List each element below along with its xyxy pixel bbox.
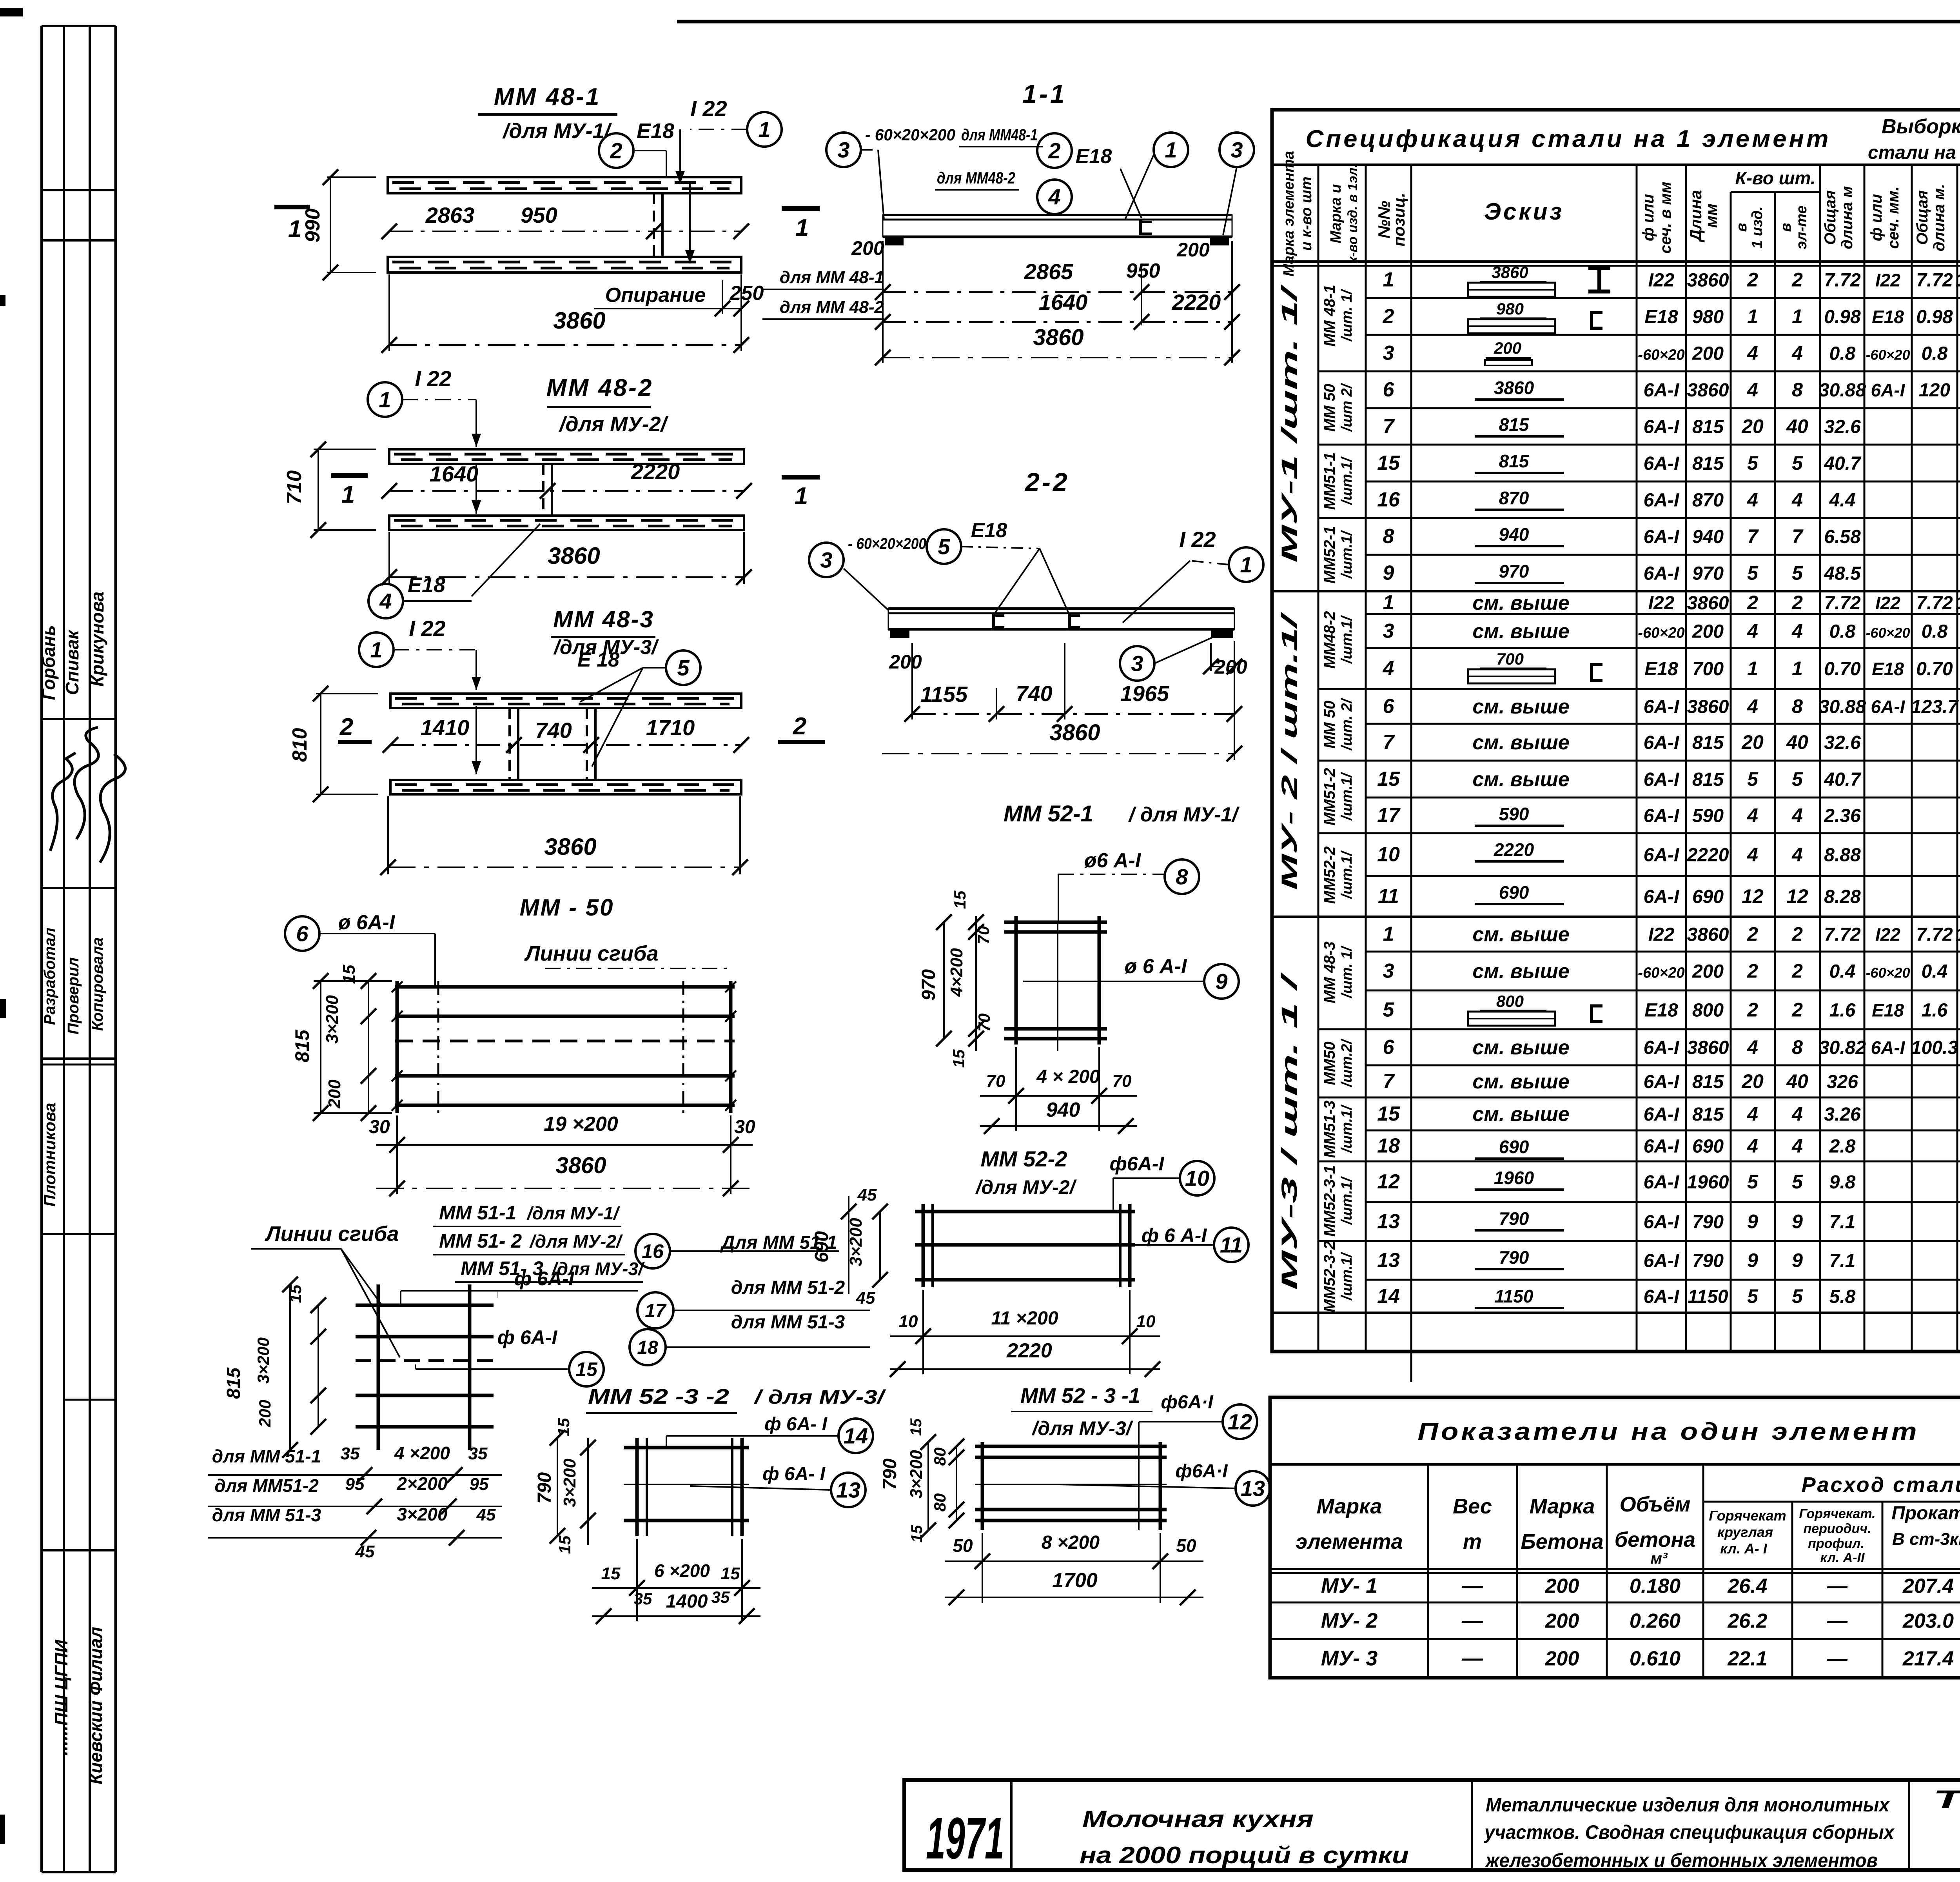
svg-text:4: 4	[1791, 1135, 1803, 1157]
svg-text:217.4: 217.4	[1902, 1648, 1954, 1670]
section 2-2 extension lines	[911, 643, 913, 719]
svg-text:Эскиз: Эскиз	[1484, 198, 1564, 225]
svg-text:3860: 3860	[1687, 593, 1729, 614]
svg-text:18: 18	[637, 1337, 658, 1358]
svg-text:3860: 3860	[1033, 325, 1083, 350]
svg-text:ф 6А-I: ф 6А-I	[497, 1326, 558, 1348]
svg-text:1960: 1960	[1494, 1168, 1534, 1188]
svg-text:ММ52-1: ММ52-1	[1321, 526, 1338, 584]
svg-text:ф6А·I: ф6А·I	[1161, 1392, 1214, 1413]
svg-text:4: 4	[379, 589, 392, 614]
pokazateli table frame	[1270, 1397, 1960, 1678]
svg-text:Молочная кухня: Молочная кухня	[1082, 1806, 1314, 1832]
svg-text:/шт.1/: /шт.1/	[1339, 530, 1355, 579]
title block frame	[904, 1780, 1960, 1870]
svg-text:ф6А·I: ф6А·I	[1175, 1461, 1228, 1482]
svg-text:ММ48-2: ММ48-2	[1321, 611, 1338, 669]
svg-text:980: 980	[1692, 307, 1724, 327]
section 1-1 C-channel mark	[1139, 220, 1142, 235]
svg-text:5: 5	[1747, 768, 1759, 790]
svg-text:ф или: ф или	[1868, 194, 1885, 241]
section 2-2 left end angle	[890, 630, 909, 638]
svg-text:5: 5	[1747, 1171, 1759, 1193]
svg-text:сеч. мм.: сеч. мм.	[1885, 186, 1902, 249]
svg-text:14: 14	[1377, 1285, 1400, 1308]
svg-text:1: 1	[795, 214, 809, 242]
svg-text:Е18: Е18	[408, 573, 445, 597]
svg-text:35: 35	[341, 1444, 360, 1463]
svg-text:МУ-3 / шт. 1 /: МУ-3 / шт. 1 /	[1277, 972, 1301, 1290]
svg-text:—: —	[1461, 1574, 1483, 1598]
svg-text:2: 2	[1791, 592, 1803, 614]
svg-text:3: 3	[1383, 960, 1394, 983]
svg-text:1: 1	[1240, 552, 1252, 577]
svg-text:80: 80	[931, 1493, 949, 1512]
svg-text:I22: I22	[1875, 925, 1900, 945]
svg-text:4×200: 4×200	[947, 948, 966, 997]
svg-text:815: 815	[1692, 453, 1724, 474]
svg-text:15: 15	[908, 1525, 926, 1542]
pokazateli header grid	[1427, 1464, 1429, 1678]
svg-text:5.8: 5.8	[1829, 1286, 1856, 1307]
svg-text:0.8: 0.8	[1829, 621, 1856, 642]
svg-text:мм: мм	[1702, 203, 1720, 228]
svg-text:70: 70	[1112, 1072, 1132, 1091]
svg-text:207.4: 207.4	[1902, 1575, 1954, 1598]
svg-text:123.7: 123.7	[1911, 697, 1959, 718]
svg-text:32.6: 32.6	[1824, 732, 1861, 753]
svg-text:для ММ 51-2: для ММ 51-2	[731, 1277, 845, 1298]
svg-text:10: 10	[1377, 843, 1400, 866]
svg-text:0.180: 0.180	[1630, 1575, 1681, 1598]
svg-text:ф 6А- I: ф 6А- I	[764, 1414, 828, 1435]
beam MM48-2 middle rib	[542, 464, 544, 516]
svg-text:80: 80	[931, 1448, 949, 1466]
svg-text:ММ 52 - 3 -1: ММ 52 - 3 -1	[1020, 1384, 1140, 1408]
svg-text:Вес: Вес	[1453, 1495, 1492, 1518]
svg-text:на 2000 порций в сутки: на 2000 порций в сутки	[1080, 1842, 1409, 1868]
svg-text:6А-I: 6А-I	[1644, 1251, 1680, 1272]
svg-text:790: 790	[1499, 1247, 1529, 1268]
svg-text:Крикунова: Крикунова	[87, 592, 107, 687]
svg-text:70: 70	[974, 926, 993, 945]
svg-text:Плотникова: Плотникова	[40, 1103, 59, 1207]
svg-text:8: 8	[1792, 696, 1803, 718]
svg-text:для ММ48-1: для ММ48-1	[961, 125, 1038, 144]
svg-text:2: 2	[1747, 923, 1758, 945]
svg-text:1150: 1150	[1688, 1286, 1728, 1307]
svg-text:40: 40	[1786, 416, 1808, 438]
svg-text:4: 4	[1747, 805, 1758, 827]
svg-text:1: 1	[1165, 138, 1177, 162]
svg-text:4: 4	[1747, 1036, 1758, 1058]
svg-text:—: —	[1827, 1610, 1848, 1633]
svg-text:и к-во шт: и к-во шт	[1298, 176, 1315, 251]
svg-text:250: 250	[730, 282, 764, 305]
svg-text:740: 740	[1016, 681, 1052, 706]
svg-text:700: 700	[1692, 659, 1724, 679]
svg-text:Е18: Е18	[1644, 307, 1678, 327]
svg-text:Линии сгиба: Линии сгиба	[524, 942, 659, 965]
svg-text:9: 9	[1383, 562, 1394, 585]
svg-text:50: 50	[1176, 1535, 1196, 1556]
svg-text:790: 790	[1499, 1208, 1529, 1229]
svg-text:184.0: 184.0	[1956, 925, 1960, 945]
svg-text:4: 4	[1791, 342, 1803, 364]
section 1-1 right end angle	[1210, 238, 1229, 245]
svg-text:1: 1	[1792, 658, 1803, 679]
svg-text:5: 5	[1792, 562, 1803, 584]
svg-text:стали на 1эл.: стали на 1эл.	[1868, 142, 1960, 163]
svg-text:30: 30	[734, 1117, 755, 1137]
svg-text:13: 13	[836, 1478, 860, 1502]
svg-text:2.36: 2.36	[1824, 806, 1861, 827]
svg-text:—: —	[1827, 1648, 1848, 1670]
svg-text:4: 4	[1791, 844, 1803, 866]
section 2-2 beam bar	[888, 607, 1234, 610]
svg-text:1.6: 1.6	[1922, 1000, 1948, 1021]
svg-text:20: 20	[1741, 416, 1764, 438]
svg-text:12: 12	[1742, 885, 1764, 907]
svg-text:6А-I: 6А-I	[1644, 453, 1680, 474]
svg-text:-60×20: -60×20	[1866, 347, 1910, 363]
svg-text:Выборка: Выборка	[1882, 115, 1960, 138]
svg-text:0.70: 0.70	[1824, 659, 1861, 679]
svg-text:см. выше: см. выше	[1472, 1036, 1569, 1059]
svg-text:15: 15	[949, 1049, 968, 1068]
svg-text:8 ×200: 8 ×200	[1042, 1532, 1100, 1553]
svg-text:5: 5	[677, 656, 690, 680]
section 2-2 right end angle	[1211, 630, 1233, 638]
svg-text:2: 2	[1048, 138, 1060, 163]
svg-text:ф 6 А-I: ф 6 А-I	[1142, 1224, 1207, 1246]
svg-text:1: 1	[758, 117, 770, 142]
svg-text:2: 2	[1747, 269, 1758, 291]
svg-text:6А-I: 6А-I	[1644, 769, 1680, 790]
section 1-1 left end angle	[885, 238, 904, 245]
svg-text:4: 4	[1747, 696, 1758, 718]
svg-text:Е18: Е18	[1644, 659, 1678, 679]
svg-text:ММ 52-1: ММ 52-1	[1004, 801, 1093, 827]
svg-text:3860: 3860	[555, 1153, 606, 1178]
svg-text:6А-I: 6А-I	[1644, 1037, 1680, 1058]
svg-text:10: 10	[1185, 1166, 1209, 1191]
svg-text:30.88: 30.88	[1819, 380, 1866, 401]
beam MM48-1 section mark 1 right	[782, 206, 820, 211]
mesh MM-50 circle 6	[285, 916, 319, 951]
beam MM48-2 section mark 1 left	[331, 473, 368, 478]
svg-text:/для МУ-1/: /для МУ-1/	[502, 119, 612, 143]
svg-text:5: 5	[1792, 452, 1803, 474]
svg-text:45: 45	[856, 1288, 875, 1308]
svg-text:Расход стали: Расход стали	[1802, 1473, 1960, 1497]
svg-text:I22: I22	[1648, 270, 1675, 291]
svg-text:1965: 1965	[1120, 681, 1169, 706]
beam MM48-1 top flange	[388, 177, 741, 193]
svg-text:Марка и: Марка и	[1328, 184, 1344, 243]
header bottom double line	[1272, 260, 1960, 263]
svg-text:—: —	[1827, 1575, 1848, 1598]
svg-text:Копировала: Копировала	[89, 937, 106, 1031]
svg-text:184.0: 184.0	[1956, 593, 1960, 614]
svg-text:/шт.1/: /шт.1/	[1339, 1176, 1355, 1225]
svg-text:см. выше: см. выше	[1472, 960, 1569, 983]
svg-text:ММ51-2: ММ51-2	[1321, 768, 1338, 826]
svg-text:4: 4	[1747, 844, 1758, 866]
svg-text:ф 6А- I: ф 6А- I	[762, 1464, 826, 1484]
svg-text:815: 815	[223, 1367, 244, 1399]
svg-text:/шт. 1/: /шт. 1/	[1339, 945, 1355, 999]
svg-text:ММ 48-1: ММ 48-1	[494, 84, 601, 111]
scan edge smudges	[0, 295, 5, 306]
svg-text:Марка: Марка	[1530, 1495, 1595, 1518]
svg-text:5: 5	[1383, 999, 1395, 1021]
svg-text:5: 5	[1792, 768, 1803, 790]
svg-text:200: 200	[1545, 1575, 1579, 1598]
svg-text:профил.: профил.	[1808, 1536, 1864, 1551]
stamp column horizontal rules	[42, 189, 116, 191]
svg-text:20: 20	[1741, 1070, 1764, 1092]
svg-text:Е18: Е18	[1076, 145, 1112, 168]
svg-text:I 22: I 22	[409, 616, 445, 641]
svg-text:815: 815	[1692, 417, 1724, 438]
beam MM48-1 bottom flange	[388, 257, 741, 272]
svg-text:50: 50	[953, 1535, 973, 1556]
beam MM48-3 top flange	[390, 694, 741, 708]
svg-text:0.8: 0.8	[1922, 621, 1948, 642]
svg-text:3×200: 3×200	[323, 995, 342, 1044]
svg-text:2: 2	[1383, 305, 1394, 328]
svg-text:15: 15	[907, 1418, 925, 1436]
svg-text:I 22: I 22	[1179, 527, 1216, 552]
svg-text:815: 815	[1499, 414, 1530, 435]
svg-text:6А-I: 6А-I	[1644, 1172, 1680, 1193]
svg-text:Горячекат.: Горячекат.	[1799, 1506, 1875, 1521]
svg-text:45: 45	[476, 1505, 496, 1524]
svg-text:5: 5	[1747, 1285, 1759, 1307]
svg-text:20: 20	[1741, 731, 1764, 753]
section 2-2 circle 3 bottom	[1120, 646, 1154, 681]
svg-text:1400: 1400	[666, 1591, 708, 1612]
svg-text:2865: 2865	[1024, 259, 1073, 284]
svg-text:3×200: 3×200	[560, 1459, 579, 1507]
svg-text:—: —	[1461, 1647, 1483, 1670]
svg-text:6.58: 6.58	[1824, 527, 1861, 547]
svg-text:/шт.1/: /шт.1/	[1339, 772, 1355, 821]
svg-text:7: 7	[1792, 525, 1804, 547]
svg-text:690: 690	[811, 1231, 832, 1263]
svg-text:1960: 1960	[1687, 1172, 1729, 1193]
svg-text:950: 950	[521, 203, 557, 227]
svg-text:940: 940	[1499, 524, 1529, 545]
svg-text:ММ 51-1: ММ 51-1	[439, 1202, 516, 1224]
svg-text:Общая: Общая	[1914, 190, 1931, 245]
svg-text:Е18: Е18	[1872, 1000, 1904, 1021]
svg-text:2: 2	[1791, 923, 1803, 945]
svg-text:ММ52-3-1: ММ52-3-1	[1321, 1165, 1338, 1237]
section 1-1 circle 3 right	[1220, 133, 1254, 167]
svg-text:ф6А-I: ф6А-I	[1110, 1153, 1165, 1175]
beam MM48-2 section mark 1 right	[782, 475, 820, 480]
svg-text:7: 7	[1383, 731, 1395, 754]
svg-text:6А-I: 6А-I	[1871, 380, 1906, 400]
svg-text:К-во шт.: К-во шт.	[1735, 168, 1815, 188]
svg-text:6А-I: 6А-I	[1644, 845, 1680, 866]
svg-text:2220: 2220	[1687, 845, 1729, 866]
svg-text:200: 200	[325, 1079, 344, 1109]
svg-text:200: 200	[1692, 343, 1724, 364]
svg-text:/ для МУ-3/: / для МУ-3/	[754, 1386, 887, 1408]
mesh MM-50 grid	[395, 985, 735, 989]
svg-text:70: 70	[975, 1014, 993, 1032]
svg-text:круглая: круглая	[1717, 1524, 1773, 1540]
svg-text:Горбань: Горбань	[38, 625, 59, 700]
svg-text:1: 1	[1792, 305, 1803, 327]
svg-text:800: 800	[1692, 1000, 1724, 1021]
beam MM48-1 circle 2	[599, 133, 633, 168]
svg-text:15: 15	[555, 1535, 574, 1554]
svg-text:Марка: Марка	[1317, 1495, 1382, 1518]
beam MM48-1 leader arrow	[679, 129, 681, 184]
svg-text:1640: 1640	[1039, 290, 1088, 314]
svg-text:кл. А- I: кл. А- I	[1720, 1540, 1768, 1557]
svg-text:3: 3	[1383, 620, 1394, 643]
beam MM48-2 bottom flange	[389, 516, 744, 530]
svg-text:Е18: Е18	[637, 119, 674, 143]
svg-text:13: 13	[1377, 1249, 1400, 1272]
svg-text:2: 2	[1747, 960, 1758, 982]
svg-text:12: 12	[1377, 1170, 1400, 1193]
svg-text:200: 200	[1545, 1648, 1579, 1670]
svg-text:- 60×20×200: - 60×20×200	[865, 125, 955, 144]
svg-text:ММ50: ММ50	[1321, 1041, 1338, 1085]
svg-text:9: 9	[1747, 1250, 1758, 1272]
svg-text:1: 1	[341, 481, 355, 508]
svg-text:2220: 2220	[631, 459, 680, 484]
svg-text:6А-I: 6А-I	[1644, 1072, 1680, 1092]
svg-text:6: 6	[1383, 695, 1395, 718]
svg-text:95: 95	[345, 1475, 365, 1494]
svg-text:ММ52-3-2: ММ52-3-2	[1321, 1241, 1338, 1312]
svg-text:3: 3	[1383, 342, 1394, 365]
svg-text:790: 790	[1692, 1251, 1724, 1272]
svg-text:/шт.1/: /шт.1/	[1339, 615, 1355, 664]
svg-text:-60×20: -60×20	[1866, 965, 1910, 981]
svg-text:I22: I22	[1648, 593, 1675, 614]
svg-text:9.8: 9.8	[1829, 1172, 1856, 1193]
title block verticals	[1010, 1780, 1013, 1870]
svg-text:1: 1	[379, 387, 391, 412]
central table empty tail row	[1272, 1312, 1960, 1314]
svg-text:1640: 1640	[430, 461, 479, 486]
svg-text:железобетонных и бетонных э: железобетонных и бетонных элементов	[1485, 1849, 1878, 1871]
svg-text:см. выше: см. выше	[1472, 620, 1569, 643]
svg-text:1: 1	[370, 638, 382, 662]
svg-text:790: 790	[1692, 1212, 1724, 1233]
svg-text:7.1: 7.1	[1829, 1251, 1856, 1272]
svg-text:6А-I: 6А-I	[1644, 1286, 1680, 1307]
svg-text:4: 4	[1791, 620, 1803, 642]
svg-text:7.72: 7.72	[1824, 270, 1861, 291]
svg-text:17: 17	[1377, 804, 1401, 827]
svg-text:15: 15	[575, 1359, 598, 1381]
svg-text:к-во изд. в 1эл.: к-во изд. в 1эл.	[1345, 164, 1360, 263]
svg-text:/для МУ-2/: /для МУ-2/	[975, 1176, 1077, 1198]
svg-text:ММ 48-3: ММ 48-3	[1321, 941, 1338, 1003]
svg-text:15: 15	[554, 1418, 573, 1436]
svg-text:1: 1	[1747, 305, 1758, 327]
svg-text:48.5: 48.5	[1824, 563, 1861, 584]
svg-text:Прокат: Прокат	[1891, 1503, 1960, 1524]
section 1-1 circle 4	[1037, 180, 1072, 214]
svg-text:длина м: длина м	[1838, 186, 1856, 249]
svg-text:/шт.1/: /шт.1/	[1339, 1104, 1355, 1154]
svg-text:870: 870	[1499, 488, 1529, 508]
svg-text:4: 4	[1747, 620, 1758, 642]
svg-text:для ММ51-2: для ММ51-2	[214, 1475, 319, 1496]
svg-text:790: 790	[534, 1472, 555, 1504]
beam MM48-1 section mark 1 left	[274, 205, 310, 209]
svg-text:ф или: ф или	[1640, 194, 1657, 241]
svg-text:I22: I22	[1875, 270, 1900, 291]
svg-text:—: —	[1461, 1609, 1483, 1633]
svg-text:4: 4	[1791, 805, 1803, 827]
svg-text:6А-I: 6А-I	[1644, 1104, 1680, 1125]
stub below Эскиз column	[1410, 1352, 1412, 1382]
svg-text:ММ 52 -3 -2: ММ 52 -3 -2	[588, 1385, 729, 1408]
svg-text:5: 5	[1792, 1171, 1803, 1193]
svg-text:Е18: Е18	[1872, 659, 1904, 679]
section 1-1 circle 2	[1037, 133, 1072, 168]
svg-text:6А-I: 6А-I	[1644, 1136, 1680, 1157]
svg-text:940: 940	[1692, 527, 1724, 547]
svg-text:22.1: 22.1	[1727, 1648, 1767, 1670]
svg-text:Типовой проект: Типовой проект	[1933, 1785, 1960, 1814]
sheet frame top line	[677, 20, 1960, 24]
svg-text:7.72: 7.72	[1916, 925, 1953, 945]
svg-text:815: 815	[1692, 1072, 1724, 1092]
svg-text:815: 815	[1692, 1104, 1724, 1125]
svg-text:15: 15	[1377, 768, 1400, 790]
svg-text:2: 2	[1747, 999, 1758, 1021]
svg-text:26.2: 26.2	[1727, 1610, 1767, 1633]
svg-text:970: 970	[1692, 563, 1724, 584]
beam MM48-3 circle 5	[666, 650, 701, 685]
svg-text:/шт 2/: /шт 2/	[1339, 383, 1355, 432]
svg-text:/для МУ-3/: /для МУ-3/	[1031, 1417, 1133, 1439]
svg-text:970: 970	[1499, 561, 1529, 581]
svg-text:1: 1	[1383, 923, 1394, 946]
svg-text:40: 40	[1786, 731, 1808, 753]
svg-text:/шт. 1/: /шт. 1/	[1339, 289, 1355, 342]
svg-text:100.3: 100.3	[1911, 1037, 1958, 1058]
svg-text:700: 700	[1496, 650, 1524, 668]
small mesh fold leaders	[341, 1249, 382, 1306]
beam MM48-3 bottom flange	[390, 780, 741, 794]
svg-text:4.4: 4.4	[1829, 490, 1856, 511]
svg-text:8.88: 8.88	[1824, 845, 1861, 866]
svg-text:1: 1	[1383, 269, 1394, 291]
svg-text:Киевский Филиал: Киевский Филиал	[85, 1627, 106, 1784]
svg-text:сеч. в мм: сеч. в мм	[1657, 182, 1674, 254]
svg-text:0.8: 0.8	[1829, 343, 1856, 364]
beam MM48-3 ribs	[508, 708, 511, 780]
svg-text:- 60×20×200: - 60×20×200	[848, 535, 926, 552]
svg-text:8: 8	[1792, 1036, 1803, 1058]
svg-text:9: 9	[1792, 1250, 1803, 1272]
svg-text:200: 200	[1176, 239, 1210, 261]
svg-text:0.260: 0.260	[1630, 1610, 1681, 1633]
